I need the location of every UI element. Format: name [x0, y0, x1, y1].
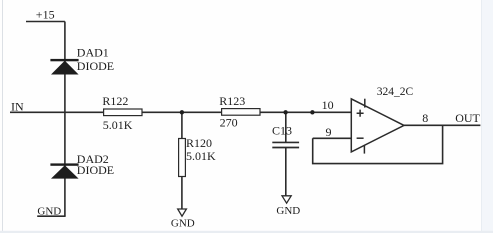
svg-text:5.01K: 5.01K: [186, 149, 216, 163]
svg-text:C13: C13: [272, 123, 292, 137]
svg-text:IN: IN: [11, 99, 24, 113]
svg-text:DIODE: DIODE: [77, 163, 114, 177]
svg-text:5.01K: 5.01K: [103, 118, 133, 132]
svg-text:9: 9: [326, 125, 332, 139]
svg-text:270: 270: [220, 116, 238, 130]
svg-text:324_2C: 324_2C: [377, 86, 414, 98]
svg-text:R120: R120: [186, 136, 212, 150]
svg-text:GND: GND: [171, 218, 195, 230]
svg-text:R122: R122: [102, 94, 128, 108]
svg-text:GND: GND: [276, 205, 300, 217]
svg-text:DIODE: DIODE: [77, 59, 114, 73]
svg-text:R123: R123: [219, 94, 245, 108]
svg-text:GND: GND: [37, 205, 61, 217]
svg-text:OUT: OUT: [455, 111, 480, 125]
svg-text:10: 10: [322, 98, 334, 112]
svg-text:+15: +15: [36, 7, 55, 21]
svg-text:DAD1: DAD1: [77, 46, 109, 60]
svg-text:8: 8: [422, 111, 428, 125]
